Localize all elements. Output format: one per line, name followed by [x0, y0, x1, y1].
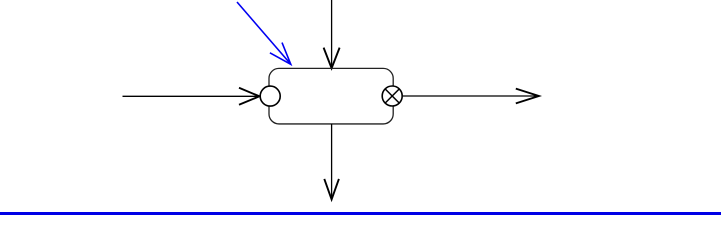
node: input port circle — [260, 86, 280, 106]
node: output port circle (crossed) — [382, 86, 402, 106]
footer rule — [0, 212, 721, 215]
node: process box — [269, 68, 393, 124]
wire: blue annotation arrow — [237, 2, 291, 64]
wire: top input arrow — [324, 0, 340, 68]
wire: left input arrow — [123, 88, 260, 105]
wire: right output arrow — [403, 89, 539, 104]
wire: bottom output arrow — [324, 124, 339, 199]
